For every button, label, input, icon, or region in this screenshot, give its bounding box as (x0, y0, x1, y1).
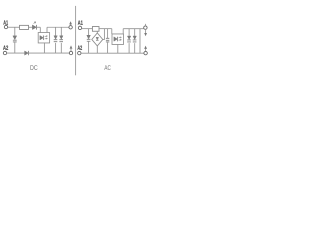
capacitor C1 branch wire bottom (107, 42, 109, 53)
zener Z4 (133, 36, 136, 39)
terminal A1 (DC) circle (4, 25, 7, 28)
LED arrow mark above D2 (34, 22, 36, 24)
wire resistor to diode D2 (29, 26, 33, 28)
zener Z1 branch wires (55, 27, 57, 53)
coupler U1 LED (40, 36, 43, 40)
bottom rail (AC) (81, 52, 144, 54)
bridge B1 bottom stub (96, 46, 98, 53)
coupler U2 bottom pin (117, 44, 119, 53)
bridge B1 diamond (92, 33, 103, 46)
output terminal top (AC) circle (144, 26, 147, 29)
wire D2 to coupler (37, 26, 41, 28)
diode D1 (reverse protection, vertical) (13, 36, 17, 40)
coupler U2 right pin (122, 29, 124, 34)
coupler U2 LED (114, 37, 117, 41)
label A1 (AC) (78, 20, 83, 24)
label A2 (DC) (3, 45, 8, 49)
bottom rail left segment (DC) (7, 52, 25, 54)
coupler U2 left pin (111, 29, 113, 34)
divider line (75, 6, 77, 75)
top rail to output (DC) (47, 26, 69, 28)
zener Z3 branch wires (128, 29, 130, 54)
label A2 (AC) (77, 45, 82, 49)
coupler U1 right pin (46, 27, 48, 32)
wire A1 to resistor (8, 26, 20, 28)
output arrow bottom (DC) (70, 48, 72, 52)
bridge B1 top stub (96, 31, 98, 33)
coupler U2 emission arrows (119, 37, 122, 41)
coupler U1 left pin (39, 27, 41, 32)
resistor R2 (AC) (92, 27, 99, 32)
vertical link wire (139, 29, 141, 54)
diode D3 (series, bottom rail) (25, 51, 29, 55)
zener Z3 (127, 36, 130, 39)
varistor branch wire bottom (88, 41, 90, 53)
output terminal bottom (DC) circle (69, 51, 72, 54)
label A1 (DC) (3, 20, 8, 24)
output terminal top (AC) tick (145, 24, 147, 26)
coupler U1 bottom pin (43, 43, 45, 54)
terminal A1 (AC) circle (78, 26, 81, 29)
wire branch down at node J1 (14, 27, 16, 36)
resistor R1 (20, 25, 29, 29)
varistor RV1 (87, 35, 91, 39)
output terminal bottom (AC) circle (144, 51, 147, 54)
wire resistor to node (AC) (99, 28, 112, 30)
output arrow top (AC) pointing down (145, 30, 147, 34)
capacitor C1 (106, 38, 109, 42)
bridge B1 inner diode (96, 37, 99, 40)
output arrow top (DC) (70, 24, 72, 26)
wire D1 to bottom rail (14, 42, 16, 53)
coupler U1 emission arrows (45, 36, 48, 40)
bridge B1 right vertex wire (103, 29, 105, 40)
coupler U1 box (38, 33, 49, 43)
varistor branch wire top (88, 29, 90, 36)
capacitor C1 branch wire top (107, 29, 109, 38)
zener Z2 branch wires (60, 27, 62, 53)
zener Z2 (60, 36, 63, 39)
zener Z4 branch wires (134, 29, 136, 54)
label DC (30, 65, 37, 70)
label AC (104, 65, 110, 70)
terminal A2 (DC) circle (3, 51, 6, 54)
coupler U2 box (112, 34, 124, 45)
DC input circuit (3, 20, 73, 70)
output terminal top (DC) circle (69, 26, 72, 29)
bottom rail right segment (DC) (28, 52, 69, 54)
zener Z1 (54, 36, 57, 39)
output arrow bottom (AC) (145, 48, 147, 51)
terminal A2 (AC) circle (78, 51, 81, 54)
wire A1 to resistor (AC) (82, 28, 93, 30)
diode D2 (series) (32, 25, 36, 30)
AC input circuit (77, 20, 147, 69)
top rail to output (AC) (123, 28, 144, 30)
